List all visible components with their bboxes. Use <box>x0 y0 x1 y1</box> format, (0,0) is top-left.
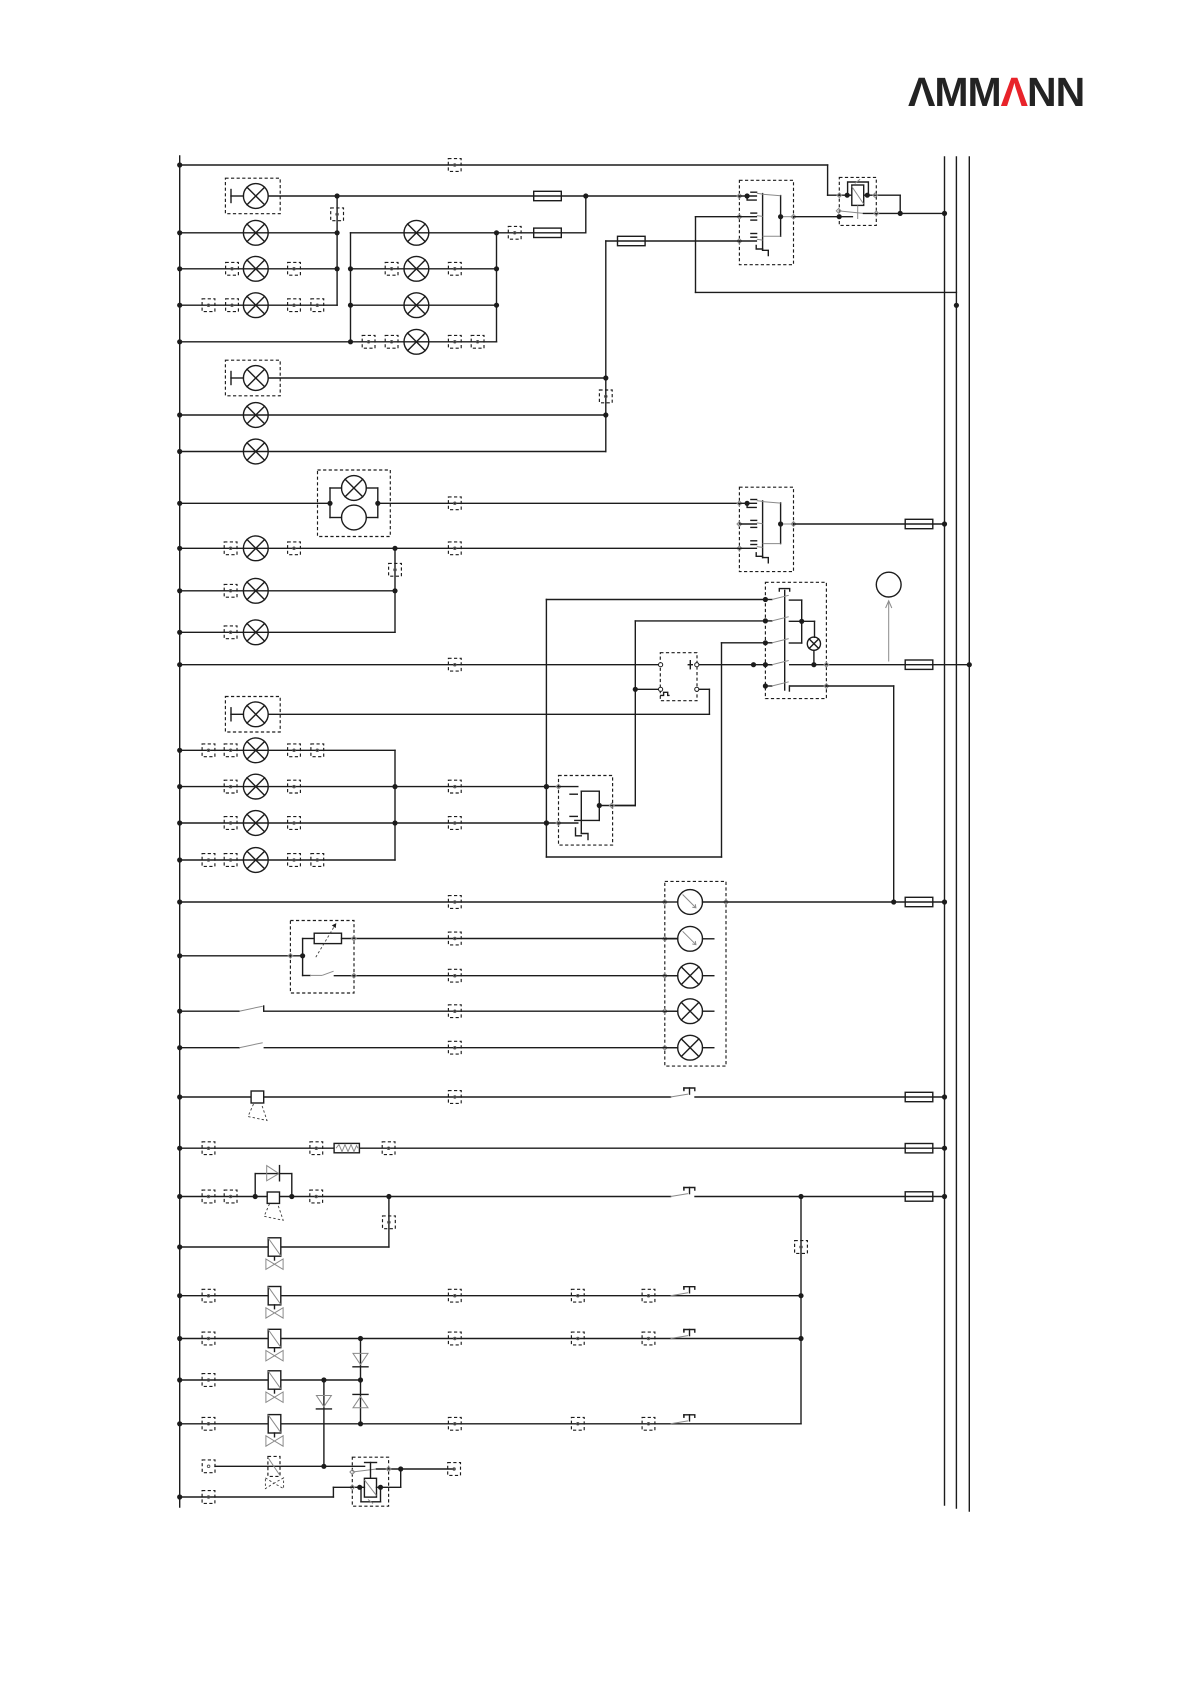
svg-text:ΛMMΛNN: ΛMMΛNN <box>908 69 1084 115</box>
